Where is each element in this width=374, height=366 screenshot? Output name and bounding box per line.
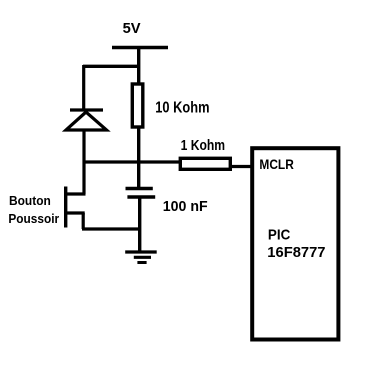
svg-text:100 nF: 100 nF [163, 198, 208, 215]
svg-text:Bouton: Bouton [9, 193, 51, 208]
svg-text:16F8777: 16F8777 [267, 244, 325, 261]
svg-text:MCLR: MCLR [259, 156, 293, 172]
svg-text:PIC: PIC [268, 227, 291, 244]
svg-text:Poussoir: Poussoir [8, 211, 59, 226]
svg-text:1 Kohm: 1 Kohm [181, 137, 226, 154]
svg-text:10 Kohm: 10 Kohm [155, 99, 209, 116]
svg-text:5V: 5V [123, 20, 141, 37]
